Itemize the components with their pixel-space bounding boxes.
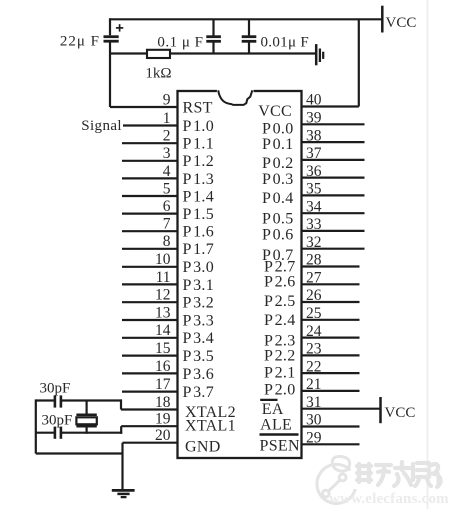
pin 20 wire (left row 20) (123, 442, 178, 444)
svg-text:VCC: VCC (258, 103, 292, 120)
wire jog into pin 18 (120, 399, 122, 409)
svg-text:22μ F: 22μ F (60, 34, 100, 50)
pin 35 wire (right row 6) (302, 194, 365, 196)
pin 13 wire (left row 13) (122, 319, 178, 321)
svg-text:37: 37 (306, 145, 322, 162)
svg-text:P0.2: P0.2 (262, 155, 294, 172)
pin 8 wire (left row 9) (122, 248, 178, 250)
svg-text:5: 5 (163, 180, 171, 197)
svg-text:32: 32 (306, 234, 322, 251)
svg-text:14: 14 (155, 322, 171, 339)
pin 15 wire (left row 15) (122, 355, 178, 357)
capacitor C3 0.01uF leads (248, 19, 250, 36)
wire C1 lower lead down to RST node (109, 42, 111, 107)
svg-text:20: 20 (155, 427, 171, 444)
wire C1 upper lead (109, 18, 111, 35)
svg-text:P2.2: P2.2 (264, 347, 296, 364)
wire XTAL2 top bus (36, 399, 54, 401)
svg-text:P1.3: P1.3 (183, 171, 215, 188)
pin 18 wire (left row 18) (121, 408, 178, 410)
svg-text:VCC: VCC (385, 405, 416, 421)
pin 17 wire (left row 17) (122, 391, 178, 393)
svg-text:0.1 μ F: 0.1 μ F (157, 35, 203, 51)
svg-text:www.elecfans.com: www.elecfans.com (329, 491, 449, 507)
pin 31 wire (right row 18) (302, 408, 381, 410)
ground symbol bottom (112, 489, 135, 492)
svg-text:P0.3: P0.3 (262, 171, 294, 188)
svg-text:10: 10 (155, 251, 171, 268)
svg-text:35: 35 (306, 181, 322, 198)
svg-text:6: 6 (163, 198, 171, 215)
svg-text:P0.5: P0.5 (262, 210, 294, 227)
svg-text:3: 3 (163, 145, 171, 162)
svg-text:Signal: Signal (81, 118, 122, 134)
wire bottom bus to ground (36, 452, 123, 454)
svg-text:P3.1: P3.1 (183, 277, 215, 294)
pin 16 wire (left row 16) (122, 372, 178, 374)
svg-text:11: 11 (156, 269, 171, 286)
pin 11 wire (left row 11) (122, 283, 178, 285)
pin 7 wire (left row 8) (122, 230, 178, 232)
pin 22 wire (right row 16) (302, 372, 360, 374)
svg-text:15: 15 (155, 340, 171, 357)
svg-text:26: 26 (306, 287, 322, 304)
crystal Y1 plates (76, 413, 96, 416)
svg-text:2: 2 (163, 128, 171, 145)
ground (sideways) at end of lower bus (315, 44, 318, 65)
pin 14 wire (left row 14) (122, 337, 178, 339)
pin 10 wire (left row 10) (122, 266, 178, 268)
IC top notch (217, 89, 254, 93)
wire XTAL1 middle bus (36, 432, 54, 434)
pin 5 wire (left row 6) (122, 195, 178, 197)
svg-text:27: 27 (306, 270, 322, 287)
svg-text:30pF: 30pF (40, 381, 71, 397)
svg-text:P3.2: P3.2 (183, 295, 215, 312)
crystal Y1 leads (85, 400, 87, 415)
svg-text:34: 34 (306, 198, 322, 215)
svg-text:P1.5: P1.5 (183, 206, 215, 223)
svg-text:P2.5: P2.5 (264, 293, 296, 310)
pin 21 wire (right row 17) (302, 390, 360, 392)
svg-text:P3.4: P3.4 (183, 330, 215, 347)
wire vertical drop to pin 40 (358, 19, 360, 106)
svg-text:1: 1 (163, 110, 171, 127)
svg-text:30: 30 (306, 412, 322, 429)
svg-text:P1.1: P1.1 (183, 136, 215, 153)
svg-text:PSEN: PSEN (260, 437, 300, 454)
capacitor C2 0.1uF leads (212, 19, 214, 36)
svg-text:38: 38 (306, 127, 322, 144)
svg-text:RST: RST (183, 99, 213, 116)
pin 4 wire (left row 5) (122, 177, 178, 179)
svg-text:40: 40 (306, 92, 322, 109)
svg-text:P0.6: P0.6 (262, 226, 294, 243)
VCC symbol at pin 31 (EA) (379, 397, 382, 423)
wire lower bus right segment (170, 52, 316, 54)
svg-text:7: 7 (163, 216, 171, 233)
pin 27 wire (right row 11) (302, 283, 360, 285)
svg-text:P1.2: P1.2 (183, 153, 215, 170)
pin 24 wire (right row 14) (302, 337, 360, 339)
resistor R1 (147, 50, 170, 58)
svg-text:1kΩ: 1kΩ (145, 66, 171, 82)
svg-text:13: 13 (155, 304, 171, 321)
svg-text:P0.0: P0.0 (262, 120, 294, 137)
pin 30 wire (right row 19) (302, 425, 360, 427)
pin 34 wire (right row 7) (302, 212, 365, 214)
pin 9 wire (left row 1) (110, 106, 178, 108)
pin 28 wire (right row 10) (302, 265, 360, 267)
pin 36 wire (right row 5) (302, 177, 365, 179)
C1 plus sign (119, 24, 121, 31)
svg-text:P2.0: P2.0 (264, 381, 296, 398)
capacitor C3 plates (242, 35, 257, 38)
pin 19 wire (left row 19) (121, 425, 177, 427)
svg-text:31: 31 (306, 394, 322, 411)
svg-text:XTAL1: XTAL1 (185, 417, 236, 434)
svg-text:ALE: ALE (260, 416, 292, 433)
capacitor C5 30pF plates (54, 427, 57, 439)
wire jog from pin 19 (120, 426, 122, 434)
pin 37 wire (right row 4) (302, 159, 365, 161)
svg-text:VCC: VCC (386, 15, 417, 31)
wire VCC top bus (110, 18, 382, 20)
scan artifact faint vertical line (427, 0, 429, 509)
crystal Y1 body (76, 417, 96, 424)
svg-text:P1.4: P1.4 (183, 188, 215, 205)
watermark chinese brand strokes (357, 462, 441, 487)
svg-text:39: 39 (306, 110, 322, 127)
pin 38 wire (right row 3) (302, 141, 365, 143)
svg-text:12: 12 (155, 287, 171, 304)
pin 25 wire (right row 13) (302, 319, 360, 321)
pin 6 wire (left row 7) (122, 213, 178, 215)
capacitor C2 plates (206, 35, 221, 38)
pin 40 wire (right row 1) (302, 105, 359, 107)
wire left vertical of crystal loop (35, 399, 37, 453)
pin 26 wire (right row 12) (302, 301, 360, 303)
svg-text:P1.0: P1.0 (183, 118, 215, 135)
svg-text:19: 19 (155, 411, 171, 428)
svg-text:P3.0: P3.0 (183, 259, 215, 276)
svg-text:30pF: 30pF (42, 413, 73, 429)
svg-text:P2.1: P2.1 (264, 365, 296, 382)
svg-text:P0.1: P0.1 (262, 136, 294, 153)
svg-text:17: 17 (155, 376, 171, 393)
pin 29 wire (right row 20) (302, 443, 360, 445)
capacitor C1 22uF plates (104, 35, 119, 38)
pin 33 wire (right row 8) (302, 230, 365, 232)
svg-text:P3.5: P3.5 (183, 348, 215, 365)
svg-text:25: 25 (306, 305, 322, 322)
svg-text:16: 16 (155, 358, 171, 375)
svg-text:P3.7: P3.7 (183, 384, 215, 401)
svg-text:21: 21 (306, 376, 322, 393)
pin 12 wire (left row 12) (122, 301, 178, 303)
svg-text:P3.6: P3.6 (183, 366, 215, 383)
svg-text:P1.6: P1.6 (183, 224, 215, 241)
svg-text:GND: GND (185, 439, 221, 456)
svg-text:33: 33 (306, 216, 322, 233)
svg-text:0.01μ F: 0.01μ F (261, 35, 309, 51)
capacitor C4 30pF plates (54, 395, 57, 407)
svg-text:P3.3: P3.3 (183, 312, 215, 329)
pin 32 wire (right row 9) (302, 248, 365, 250)
wire lower bus left segment (110, 52, 148, 54)
svg-text:18: 18 (155, 394, 171, 411)
svg-text:P1.7: P1.7 (183, 241, 215, 258)
svg-text:23: 23 (306, 341, 322, 358)
svg-text:9: 9 (163, 91, 171, 108)
pin 1 wire (left row 2) (123, 124, 178, 126)
pin 2 wire (left row 3) (122, 142, 178, 144)
svg-text:28: 28 (306, 252, 322, 269)
pin 23 wire (right row 15) (302, 354, 360, 356)
svg-text:8: 8 (163, 233, 171, 250)
svg-text:36: 36 (306, 163, 322, 180)
pin 39 wire (right row 2) (302, 123, 365, 125)
svg-text:P2.4: P2.4 (264, 312, 296, 329)
svg-text:24: 24 (306, 323, 322, 340)
svg-text:P2.6: P2.6 (264, 274, 296, 291)
svg-text:22: 22 (306, 358, 322, 375)
svg-text:P0.4: P0.4 (262, 190, 294, 207)
wire pin 20 down to ground (121, 443, 123, 491)
svg-text:4: 4 (163, 163, 171, 180)
svg-text:29: 29 (306, 430, 322, 447)
pin 3 wire (left row 4) (122, 160, 178, 162)
watermark logo circle (317, 456, 355, 503)
VCC symbol top right (381, 6, 384, 33)
op: IC U1 AT89C51 body (178, 91, 302, 458)
